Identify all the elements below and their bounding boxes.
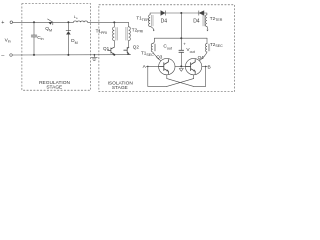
wire between Q3 Q4 — [175, 65, 185, 67]
wire node B — [202, 65, 207, 67]
wire cross coupling X — [167, 79, 194, 87]
svg-text:Cout: Cout — [163, 44, 172, 51]
polarity triangle under center tap — [179, 69, 183, 72]
T2 core — [126, 27, 127, 40]
wire top rail left — [13, 21, 129, 23]
wire T1 tertiary bottom to bus — [150, 26, 154, 29]
svg-text:+: + — [183, 42, 186, 47]
T1 secondary core — [154, 44, 155, 51]
transistor Q1 — [108, 47, 115, 54]
svg-text:–: – — [1, 53, 5, 59]
node junction Q1 emitter — [113, 54, 115, 56]
transformer T2 primary winding — [129, 27, 131, 41]
svg-text:T1TER: T1TER — [136, 16, 149, 22]
diode D4 right — [199, 11, 204, 15]
svg-text:Q2: Q2 — [133, 45, 140, 50]
node junction center tap — [180, 65, 182, 67]
svg-text:Vout: Vout — [186, 47, 194, 54]
wire T2 primary drop — [127, 22, 129, 27]
svg-text:D4: D4 — [193, 18, 200, 24]
transformer T1 secondary winding — [151, 44, 152, 52]
wire T2 primary to Q2 — [128, 41, 130, 48]
transformer T1 primary winding — [113, 27, 115, 41]
wire B to cross bottom — [194, 66, 206, 86]
transformer T2 secondary winding — [206, 44, 208, 52]
svg-text:T2TER: T2TER — [210, 16, 223, 22]
svg-text:Lo: Lo — [74, 15, 78, 20]
T2 tertiary core — [203, 15, 204, 26]
wire secondary bus — [154, 37, 207, 39]
wire node A — [146, 65, 158, 67]
svg-text:Q1: Q1 — [103, 46, 110, 51]
node junction A — [147, 66, 149, 68]
node junction rectifier output — [180, 12, 182, 14]
node junction B — [205, 66, 207, 68]
wire T2 secondary to Q4 — [199, 52, 207, 61]
svg-text:+: + — [1, 20, 4, 26]
svg-text:DM: DM — [71, 38, 78, 45]
node junction D_M top — [67, 21, 69, 23]
node + input terminal — [10, 21, 13, 24]
svg-text:T2SEC: T2SEC — [210, 42, 223, 48]
diode DM — [66, 22, 71, 55]
isolation stage box — [99, 5, 235, 92]
capacitor Cin — [33, 22, 35, 55]
wire A to cross bottom — [148, 66, 167, 86]
svg-text:STAGE: STAGE — [46, 85, 62, 91]
wire Q3 emitter drop — [166, 75, 168, 79]
node junction bus center — [180, 37, 182, 39]
wire rectifier drop — [180, 13, 182, 50]
negative input terminal — [10, 54, 13, 57]
T2 secondary core — [209, 44, 210, 51]
svg-text:B: B — [208, 65, 211, 71]
svg-text:D4: D4 — [161, 18, 168, 24]
svg-text:Cin: Cin — [37, 35, 43, 41]
T1 tertiary core — [152, 15, 153, 26]
transformer T1 tertiary winding — [149, 15, 151, 27]
wire T1 secondary to Q3 — [153, 52, 161, 61]
node junction T1 primary top — [113, 21, 115, 23]
T1 core — [116, 27, 117, 40]
svg-text:STAGE: STAGE — [112, 85, 128, 91]
regulation stage box — [22, 4, 91, 91]
transistor Q2 — [124, 47, 129, 54]
svg-text:A: A — [143, 64, 147, 70]
inductor Lo — [74, 21, 88, 22]
node junction C_in top — [33, 21, 35, 23]
transistor Q3 — [159, 58, 175, 74]
wire T1 primary to Q1 — [113, 41, 115, 48]
wire T2 tertiary bottom to bus — [207, 26, 208, 29]
svg-text:T2PRI: T2PRI — [132, 27, 143, 33]
node junction C_in bottom — [33, 54, 35, 56]
capacitor Cout — [180, 53, 182, 67]
node junction D_M bottom — [67, 54, 69, 56]
wire Q4 emitter drop — [193, 75, 195, 79]
transformer T2 tertiary winding — [205, 15, 207, 27]
wire T1 primary drop — [113, 22, 115, 27]
wire rectifier top rail — [150, 13, 207, 15]
diode D4 left — [161, 11, 165, 15]
svg-text:QM: QM — [45, 26, 52, 32]
switch QM — [48, 19, 53, 25]
ground — [94, 54, 96, 56]
wire bottom rail — [13, 54, 131, 56]
transistor Q4 — [185, 58, 201, 74]
svg-text:Vin: Vin — [5, 37, 11, 43]
svg-text:Q4: Q4 — [198, 55, 205, 60]
svg-text:T1PRI: T1PRI — [96, 29, 107, 35]
svg-text:Q3: Q3 — [156, 55, 163, 60]
